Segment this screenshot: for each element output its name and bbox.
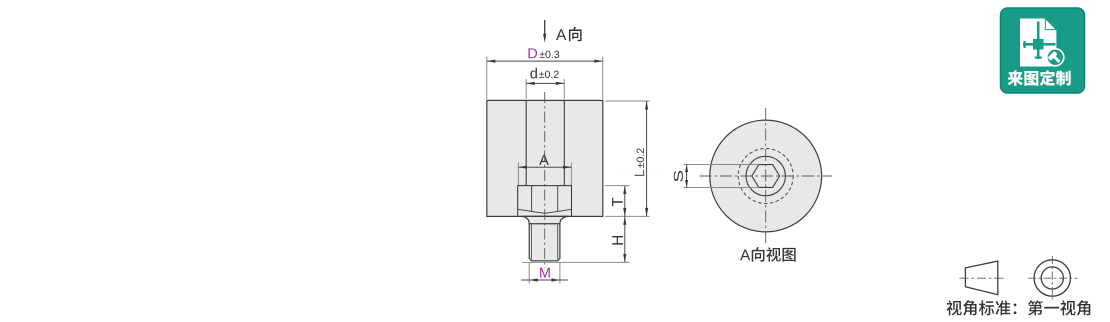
hex socket cavity	[518, 186, 572, 217]
bore line left (d)	[525, 100, 527, 185]
label A向	[556, 29, 566, 40]
projection cone centerline	[959, 277, 1004, 279]
dimension L±0.2 line	[646, 101, 648, 216]
socket cone tip	[518, 209, 571, 213]
front view: cylindrical body D	[487, 100, 603, 216]
A view: hex socket hexagon	[752, 165, 780, 188]
A view: vertical centerline	[765, 108, 767, 243]
badge text 来图定制	[1007, 70, 1023, 85]
dimension A line	[518, 166, 571, 168]
dimension T line	[624, 186, 626, 217]
dimension H extension line	[522, 261, 630, 263]
dimension H text (rotated)	[612, 236, 623, 245]
badge hammer circle	[1047, 49, 1064, 66]
badge crosshair center square	[1033, 39, 1044, 50]
hex socket facet left	[531, 186, 533, 212]
dimension T text (rotated)	[612, 198, 623, 207]
centerline front view	[544, 92, 546, 268]
projection crosshair vertical	[1051, 256, 1053, 299]
flare fillet below body	[522, 216, 569, 223]
badge hammer icon	[1048, 51, 1063, 66]
caption 视角标准：第一视角	[947, 300, 962, 315]
dimension H line	[624, 216, 626, 262]
badge background 来图定制	[1001, 8, 1085, 93]
dimension S text (rotated)	[674, 171, 683, 182]
dimension M line	[521, 279, 568, 281]
dimension T extension line	[605, 185, 630, 187]
A view: inner bore circle	[746, 156, 785, 195]
threaded stud M	[529, 224, 560, 261]
dimension M text	[540, 268, 550, 278]
badge crosshair vertical	[1037, 22, 1040, 60]
dimension S line	[686, 165, 688, 188]
badge crosshair ticks	[1035, 57, 1042, 59]
view direction arrow A	[544, 20, 546, 36]
dimension M extension lines	[528, 263, 530, 284]
dimension L±0.2 extension lines	[605, 100, 649, 102]
A view caption A向视图	[740, 250, 750, 261]
dimension D±0.3 extension lines	[486, 57, 488, 100]
hex socket facet right	[557, 186, 559, 212]
A view: horizontal centerline	[700, 175, 832, 177]
dimension D±0.3 line	[487, 60, 603, 62]
badge document icon	[1020, 19, 1056, 67]
dimension d±0.2 extension lines	[525, 79, 527, 99]
projection crosshair horizontal	[1028, 277, 1077, 279]
dimension A extension lines	[517, 163, 519, 186]
dimension d±0.2 line	[526, 82, 564, 84]
dimension D±0.3 text	[528, 48, 537, 58]
A view: outer circle	[710, 120, 822, 232]
projection cone (trapezoid)	[965, 261, 997, 295]
thread line right	[557, 225, 559, 260]
projection circle outer	[1034, 260, 1070, 296]
bore line right (d)	[563, 100, 565, 185]
A view: dashed socket circle	[738, 149, 793, 204]
badge document fold	[1045, 19, 1056, 30]
dimension L±0.2 text (rotated)	[635, 148, 645, 176]
thread line left	[530, 225, 532, 260]
badge crosshair horizontal	[1023, 43, 1056, 46]
projection circle inner	[1041, 267, 1063, 289]
dimension S extension lines	[684, 164, 759, 166]
dimension A text	[539, 155, 549, 165]
dimension d±0.2 text	[530, 68, 537, 79]
